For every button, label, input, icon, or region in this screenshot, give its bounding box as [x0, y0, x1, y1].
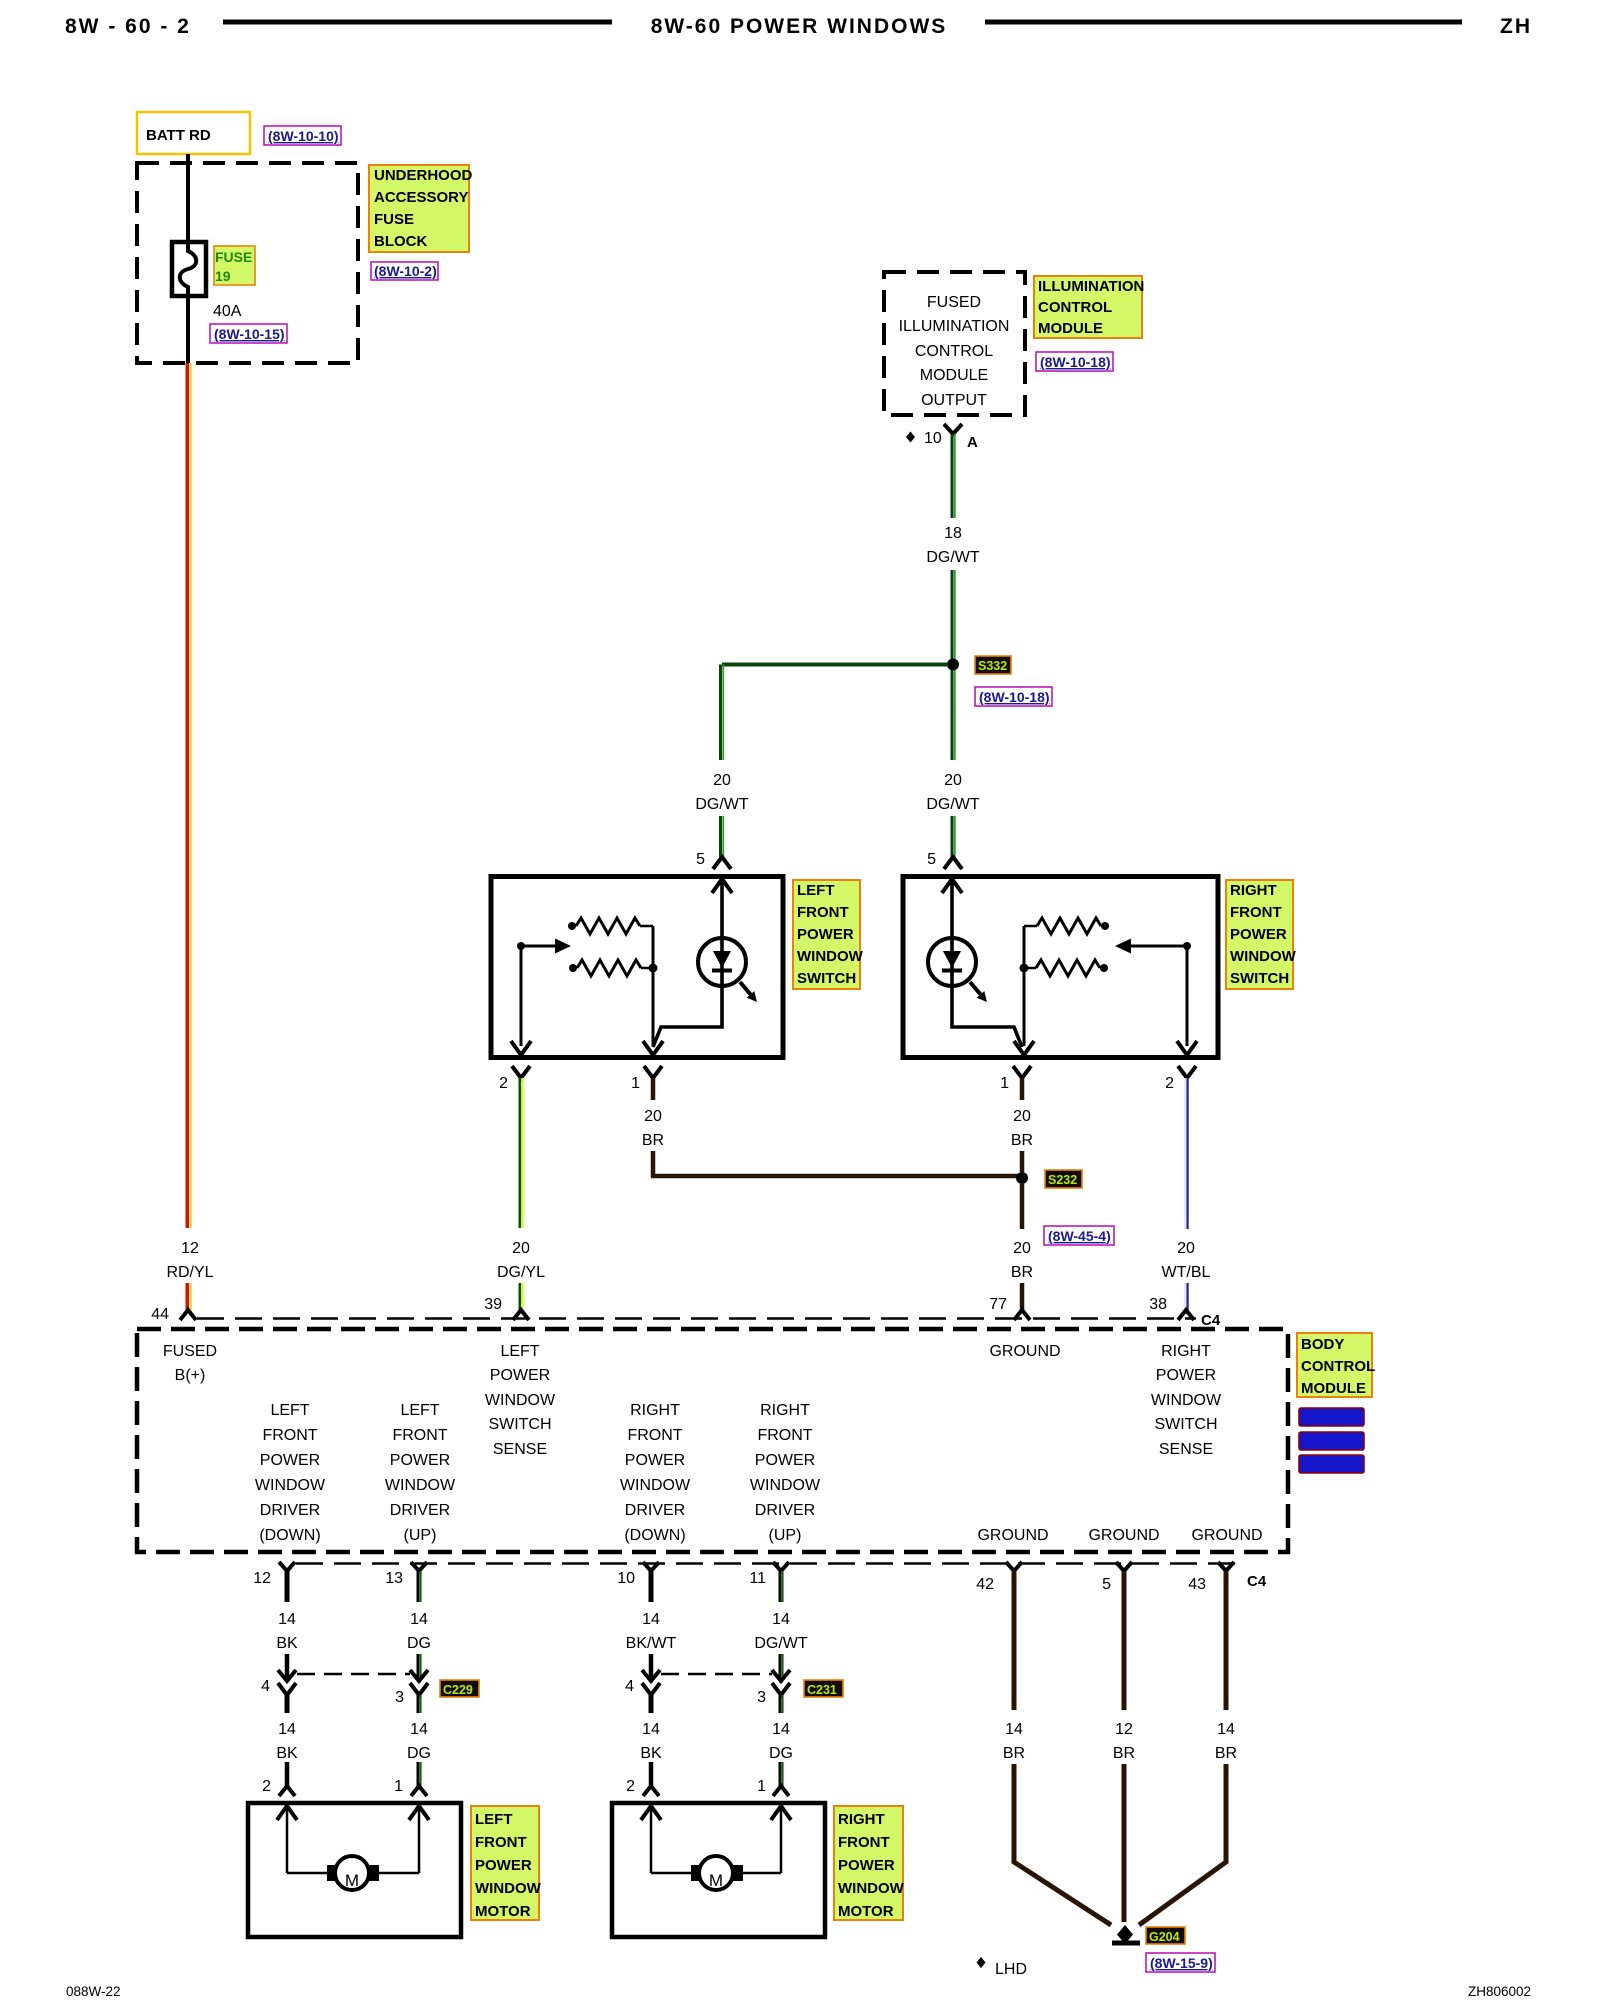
- svg-text:WINDOW: WINDOW: [838, 1880, 905, 1897]
- motor M2: [699, 1856, 733, 1890]
- svg-text:BR: BR: [642, 1132, 664, 1149]
- svg-text:12: 12: [1115, 1721, 1133, 1738]
- svg-text:POWER: POWER: [755, 1452, 815, 1469]
- link (8W-45-4): [1044, 1226, 1114, 1245]
- svg-text:BR: BR: [1011, 1132, 1033, 1149]
- left switch wiper output line: [520, 946, 523, 1046]
- connector C231 pin 3 fork: [772, 1683, 790, 1695]
- svg-text:39: 39: [484, 1296, 502, 1313]
- motor M1: [335, 1856, 369, 1890]
- svg-text:DG: DG: [769, 1745, 793, 1762]
- wire RD/YL from fuse block to BCM pin 44 (upper segment): [187, 363, 191, 1228]
- wire 14 BK stub from pin 12: [285, 1571, 290, 1602]
- ground G204 symbol: [1117, 1925, 1133, 1944]
- wire 14 BR from pin 42: [1012, 1571, 1017, 1710]
- connector C231 dashed link: [661, 1673, 772, 1676]
- svg-text:WINDOW: WINDOW: [485, 1392, 556, 1409]
- svg-text:ILLUMINATION: ILLUMINATION: [899, 318, 1010, 335]
- svg-text:14: 14: [1005, 1721, 1023, 1738]
- svg-text:DRIVER: DRIVER: [755, 1502, 815, 1519]
- wire left branch DG/WT upper: [721, 665, 724, 761]
- redacted link block 3: [1299, 1455, 1364, 1473]
- wire 14 BK/WT stub from pin 10: [649, 1571, 654, 1602]
- right switch wiper arm: [1183, 942, 1191, 950]
- left switch LED diode: [713, 951, 731, 968]
- svg-text:POWER: POWER: [390, 1452, 450, 1469]
- left motor wiring: [287, 1872, 327, 1875]
- svg-text:POWER: POWER: [625, 1452, 685, 1469]
- connector C231 pin 4 fork: [642, 1683, 660, 1695]
- wire 18 DG/WT lower: [952, 570, 955, 662]
- svg-text:BODY: BODY: [1301, 1336, 1344, 1353]
- pin A fork: [944, 424, 962, 434]
- svg-text:DRIVER: DRIVER: [260, 1502, 320, 1519]
- wire 14 DG/WT to connector C231 pin 3: [780, 1654, 783, 1678]
- svg-text:BATT RD: BATT RD: [146, 127, 211, 144]
- link (8W-10-18): [1036, 352, 1113, 371]
- svg-text:3: 3: [395, 1689, 404, 1706]
- wire 20 WT/BL upper: [1185, 1078, 1187, 1229]
- svg-text:FRONT: FRONT: [475, 1834, 527, 1851]
- ground label G204: [1146, 1927, 1185, 1944]
- svg-text:20: 20: [512, 1240, 530, 1257]
- svg-text:LEFT: LEFT: [400, 1402, 439, 1419]
- wire 20 BR right to S232: [1020, 1151, 1025, 1172]
- svg-text:1: 1: [631, 1075, 640, 1092]
- connector label C231: [804, 1680, 843, 1697]
- motor pin 2 fork: [279, 1786, 295, 1796]
- header rule left: [223, 20, 612, 25]
- motor pin 1 fork: [411, 1786, 427, 1796]
- svg-text:WINDOW: WINDOW: [750, 1477, 821, 1494]
- svg-text:S232: S232: [1048, 1173, 1077, 1187]
- svg-text:M: M: [709, 1871, 723, 1890]
- component label RIGHT FRONT POWER WINDOW MOTOR: [834, 1806, 905, 1920]
- svg-text:POWER: POWER: [838, 1857, 895, 1874]
- svg-text:BLOCK: BLOCK: [374, 233, 427, 250]
- svg-text:3: 3: [757, 1689, 766, 1706]
- svg-text:MODULE: MODULE: [1301, 1380, 1366, 1397]
- wire 20 DG/YL lower: [520, 1283, 523, 1311]
- left switch pin 1 fork: [644, 1066, 662, 1078]
- svg-text:POWER: POWER: [260, 1452, 320, 1469]
- svg-text:1: 1: [757, 1778, 766, 1795]
- ILLUMINATION MODULE: [695, 272, 1144, 869]
- svg-text:S332: S332: [978, 659, 1007, 673]
- right switch pin 5 fork: [944, 857, 962, 869]
- pin 38 fork: [1178, 1310, 1194, 1320]
- svg-text:14: 14: [410, 1721, 428, 1738]
- svg-text:DG/WT: DG/WT: [695, 796, 749, 813]
- svg-text:FUSED: FUSED: [927, 294, 981, 311]
- svg-text:14: 14: [772, 1611, 790, 1628]
- svg-text:POWER: POWER: [1156, 1367, 1216, 1384]
- svg-text:14: 14: [278, 1721, 296, 1738]
- svg-text:SENSE: SENSE: [493, 1441, 547, 1458]
- wire 20 BR to pin 77: [1020, 1283, 1025, 1311]
- svg-text:M: M: [345, 1871, 359, 1890]
- wire 14 DG stub from pin 13: [418, 1571, 421, 1602]
- svg-text:ZH: ZH: [1500, 15, 1532, 38]
- svg-text:MODULE: MODULE: [920, 367, 988, 384]
- svg-text:BR: BR: [1003, 1745, 1025, 1762]
- svg-text:FRONT: FRONT: [627, 1427, 682, 1444]
- right switch resistor R-up: [1024, 925, 1037, 928]
- right switch pin5 entry arrow: [942, 879, 962, 893]
- splice S232: [1016, 1172, 1028, 1184]
- right motor wiring: [651, 1872, 691, 1875]
- svg-text:77: 77: [989, 1296, 1007, 1313]
- wire fuse output (black segment): [186, 296, 190, 363]
- svg-text:FUSE: FUSE: [215, 249, 252, 265]
- svg-text:5: 5: [1102, 1576, 1111, 1593]
- left switch pin2 exit arrow: [511, 1041, 531, 1055]
- svg-text:ACCESSORY: ACCESSORY: [374, 189, 468, 206]
- svg-text:BR: BR: [1113, 1745, 1135, 1762]
- svg-text:CONTROL: CONTROL: [1038, 299, 1112, 316]
- svg-text:LEFT: LEFT: [270, 1402, 309, 1419]
- connector C229 dashed link: [297, 1673, 410, 1676]
- left switch resistor output line: [652, 926, 655, 1046]
- wire 20 BR left upper: [651, 1078, 656, 1100]
- svg-text:DG/WT: DG/WT: [754, 1635, 808, 1652]
- left motor pin1 entry arrow: [409, 1806, 429, 1820]
- pin 13 fork: [411, 1562, 427, 1571]
- svg-text:WINDOW: WINDOW: [1230, 948, 1297, 965]
- svg-text:1: 1: [1000, 1075, 1009, 1092]
- svg-text:SWITCH: SWITCH: [1154, 1416, 1217, 1433]
- connector C229 pin 4 fork: [278, 1683, 296, 1695]
- svg-text:BR: BR: [1215, 1745, 1237, 1762]
- svg-text:MODULE: MODULE: [1038, 320, 1103, 337]
- svg-text:20: 20: [713, 772, 731, 789]
- svg-text:(UP): (UP): [769, 1527, 802, 1544]
- svg-text:5: 5: [696, 851, 705, 868]
- wire 14 DG/WT stub from pin 11: [780, 1571, 783, 1602]
- svg-text:GROUND: GROUND: [1191, 1527, 1262, 1544]
- svg-text:5: 5: [927, 851, 936, 868]
- wire 14 BR from pin 43: [1224, 1571, 1229, 1710]
- svg-text:RIGHT: RIGHT: [630, 1402, 680, 1419]
- right switch resistor R-down: [1020, 964, 1029, 973]
- svg-text:MOTOR: MOTOR: [475, 1903, 531, 1920]
- component label LEFT FRONT POWER WINDOW SWITCH: [793, 880, 864, 989]
- svg-text:BK: BK: [640, 1745, 662, 1762]
- svg-text:POWER: POWER: [797, 926, 854, 943]
- svg-text:FRONT: FRONT: [838, 1834, 890, 1851]
- svg-text:DG/YL: DG/YL: [497, 1264, 545, 1281]
- svg-text:20: 20: [1013, 1108, 1031, 1125]
- right front power window switch box: [903, 877, 1218, 1058]
- svg-text:DG/WT: DG/WT: [926, 796, 980, 813]
- wire right branch DG/WT lower: [952, 816, 955, 857]
- wire 12 BR from pin 5: [1122, 1571, 1127, 1710]
- left switch resistor R-up: [568, 922, 576, 930]
- svg-text:FRONT: FRONT: [1230, 904, 1282, 921]
- pin 42 fork: [1006, 1562, 1022, 1571]
- svg-text:8W - 60 - 2: 8W - 60 - 2: [65, 15, 191, 38]
- svg-text:088W-22: 088W-22: [66, 1984, 121, 1999]
- svg-text:RIGHT: RIGHT: [760, 1402, 810, 1419]
- TOP LEFT: battery feed and fuse block: [137, 112, 473, 1323]
- svg-text:4: 4: [261, 1678, 270, 1695]
- pin 10 fork: [643, 1562, 659, 1571]
- svg-text:(8W-15-9): (8W-15-9): [1150, 1955, 1213, 1971]
- motor M2 left brush: [691, 1865, 701, 1881]
- left switch pin1 exit arrow: [643, 1041, 663, 1055]
- fused illumination control module output dashed box: [884, 272, 1025, 415]
- connector label C229: [440, 1680, 479, 1697]
- svg-text:10: 10: [924, 430, 942, 447]
- svg-text:(8W-10-18): (8W-10-18): [979, 689, 1050, 705]
- svg-text:ZH806002: ZH806002: [1468, 1984, 1531, 1999]
- svg-text:FRONT: FRONT: [392, 1427, 447, 1444]
- BCM: [137, 1329, 1375, 1590]
- svg-text:BK/WT: BK/WT: [626, 1635, 677, 1652]
- svg-text:(UP): (UP): [404, 1527, 437, 1544]
- right switch LED supply line: [952, 879, 1022, 1047]
- svg-text:CONTROL: CONTROL: [1301, 1358, 1375, 1375]
- left front power window motor box: [248, 1803, 461, 1937]
- right switch LED diode: [943, 951, 961, 968]
- right switch pin2 exit arrow: [1177, 1041, 1197, 1055]
- splice S332: [947, 659, 959, 671]
- svg-text:14: 14: [642, 1611, 660, 1628]
- svg-text:(DOWN): (DOWN): [624, 1527, 685, 1544]
- link (8W-10-15): [210, 324, 287, 343]
- right switch LED lamp circle: [928, 938, 976, 986]
- wire 14 DG to connector C229 pin 3: [418, 1654, 421, 1678]
- svg-text:FUSED: FUSED: [163, 1343, 217, 1360]
- footnote diamond LHD: [977, 1957, 986, 1968]
- pin 12 fork: [279, 1562, 295, 1571]
- svg-text:(DOWN): (DOWN): [259, 1527, 320, 1544]
- svg-text:(8W-10-2): (8W-10-2): [374, 263, 437, 279]
- svg-text:FRONT: FRONT: [757, 1427, 812, 1444]
- svg-text:GROUND: GROUND: [977, 1527, 1048, 1544]
- svg-text:BK: BK: [276, 1745, 298, 1762]
- left switch LED lamp circle: [698, 938, 746, 986]
- svg-text:DG/WT: DG/WT: [926, 549, 980, 566]
- connector C4 top line: [197, 1317, 1196, 1320]
- svg-text:LEFT: LEFT: [475, 1811, 513, 1828]
- svg-text:POWER: POWER: [490, 1367, 550, 1384]
- svg-text:14: 14: [410, 1611, 428, 1628]
- svg-text:8W-60 POWER WINDOWS: 8W-60 POWER WINDOWS: [651, 15, 948, 38]
- svg-text:12: 12: [253, 1570, 271, 1587]
- body control module dashed box: [137, 1329, 1288, 1552]
- svg-text:FRONT: FRONT: [262, 1427, 317, 1444]
- connector C4 bottom line: [296, 1562, 1242, 1565]
- svg-text:42: 42: [976, 1576, 994, 1593]
- svg-text:C4: C4: [1247, 1573, 1267, 1590]
- svg-text:GROUND: GROUND: [1088, 1527, 1159, 1544]
- pin 5 fork: [1116, 1562, 1132, 1571]
- label FUSE 19: [214, 246, 255, 285]
- svg-text:WT/BL: WT/BL: [1162, 1264, 1211, 1281]
- svg-text:2: 2: [262, 1778, 271, 1795]
- component label ILLUMINATION CONTROL MODULE: [1034, 276, 1144, 338]
- component label BODY CONTROL MODULE: [1297, 1333, 1375, 1397]
- node BATT RD box: [137, 112, 250, 154]
- svg-text:WINDOW: WINDOW: [255, 1477, 326, 1494]
- right switch resistor output line: [1023, 926, 1026, 1046]
- pin 11 fork: [773, 1562, 789, 1571]
- link (8W-10-18) splice: [975, 687, 1052, 706]
- svg-text:19: 19: [215, 268, 231, 284]
- left switch pin 2 fork: [512, 1066, 530, 1078]
- svg-text:DRIVER: DRIVER: [390, 1502, 450, 1519]
- svg-text:C4: C4: [1201, 1312, 1221, 1329]
- link (8W-15-9): [1146, 1953, 1215, 1972]
- BOTTOM WIRES AND MOTORS: [248, 1562, 1237, 1978]
- svg-text:FUSE: FUSE: [374, 211, 414, 228]
- left switch resistor R-down: [569, 964, 577, 972]
- svg-text:LEFT: LEFT: [500, 1343, 539, 1360]
- svg-text:DG: DG: [407, 1635, 431, 1652]
- svg-text:10: 10: [617, 1570, 635, 1587]
- motor M2 right brush: [733, 1865, 743, 1881]
- right switch LED out arrow: [970, 982, 981, 994]
- svg-text:(8W-10-10): (8W-10-10): [268, 128, 339, 144]
- wire 20 WT/BL lower: [1185, 1283, 1187, 1311]
- svg-text:2: 2: [626, 1778, 635, 1795]
- pin 77 fork: [1014, 1310, 1030, 1320]
- svg-text:RIGHT: RIGHT: [1161, 1343, 1211, 1360]
- wire 14 BK/WT to connector C231 pin 4: [649, 1654, 654, 1678]
- header rule right: [985, 20, 1462, 25]
- svg-text:ILLUMINATION: ILLUMINATION: [1038, 278, 1144, 295]
- connector C229 pin 3 fork: [410, 1683, 428, 1695]
- svg-text:BR: BR: [1011, 1264, 1033, 1281]
- svg-text:DG: DG: [407, 1745, 431, 1762]
- wire 20 BR left elbow to S232: [653, 1151, 1018, 1176]
- svg-text:C231: C231: [807, 1683, 837, 1697]
- svg-text:WINDOW: WINDOW: [475, 1880, 542, 1897]
- right switch pin 2 fork: [1178, 1066, 1196, 1078]
- component label UNDERHOOD ACCESSORY FUSE BLOCK: [369, 165, 473, 252]
- right motor pin2 entry arrow: [641, 1806, 661, 1820]
- fuse F19 symbol: [172, 242, 206, 296]
- svg-text:POWER: POWER: [1230, 926, 1287, 943]
- footnote diamond 10: [906, 432, 915, 443]
- PAGE HEADER: [65, 15, 1532, 38]
- component label RIGHT FRONT POWER WINDOW SWITCH: [1226, 880, 1297, 989]
- svg-text:14: 14: [642, 1721, 660, 1738]
- motor M1 right brush: [369, 1865, 379, 1881]
- svg-text:43: 43: [1188, 1576, 1206, 1593]
- svg-text:WINDOW: WINDOW: [385, 1477, 456, 1494]
- pin 39 fork: [513, 1310, 529, 1320]
- svg-text:MOTOR: MOTOR: [838, 1903, 894, 1920]
- underhood accessory fuse block dashed box: [137, 163, 358, 363]
- wire 18 DG/WT upper: [952, 434, 955, 518]
- svg-text:12: 12: [181, 1240, 199, 1257]
- svg-text:14: 14: [1217, 1721, 1235, 1738]
- wire 20 DG/YL upper: [520, 1078, 523, 1228]
- svg-text:C229: C229: [443, 1683, 473, 1697]
- svg-text:11: 11: [749, 1570, 766, 1587]
- link (8W-10-10): [264, 126, 341, 145]
- svg-text:SWITCH: SWITCH: [1230, 970, 1289, 987]
- motor M1 left brush: [327, 1865, 337, 1881]
- svg-text:DRIVER: DRIVER: [625, 1502, 685, 1519]
- svg-text:CONTROL: CONTROL: [915, 343, 993, 360]
- wire 14 BK to connector C229 pin 4: [285, 1654, 290, 1678]
- svg-text:4: 4: [625, 1678, 634, 1695]
- left motor pin2 entry arrow: [277, 1806, 297, 1820]
- right motor pin 2 fork: [643, 1786, 659, 1796]
- svg-text:1: 1: [394, 1778, 403, 1795]
- svg-text:WINDOW: WINDOW: [797, 948, 864, 965]
- svg-text:44: 44: [151, 1306, 169, 1323]
- left front power window switch box: [491, 877, 783, 1058]
- svg-text:WINDOW: WINDOW: [1151, 1392, 1222, 1409]
- svg-text:13: 13: [385, 1570, 403, 1587]
- right switch pin1 exit arrow: [1014, 1041, 1034, 1055]
- svg-text:SWITCH: SWITCH: [488, 1416, 551, 1433]
- redacted link block 1: [1299, 1408, 1364, 1426]
- svg-text:2: 2: [1165, 1075, 1174, 1092]
- SWITCH BOXES: [491, 877, 1297, 1058]
- svg-text:14: 14: [278, 1611, 296, 1628]
- wire 20 BR below S232: [1020, 1184, 1025, 1229]
- svg-text:SENSE: SENSE: [1159, 1441, 1213, 1458]
- component label LEFT FRONT POWER WINDOW MOTOR: [471, 1806, 542, 1920]
- wire S332 branch horizontal: [722, 663, 948, 667]
- wire from BATT RD to fuse: [186, 154, 190, 243]
- right switch pin 1 fork: [1013, 1066, 1031, 1078]
- svg-text:BK: BK: [276, 1635, 298, 1652]
- svg-text:LEFT: LEFT: [797, 882, 835, 899]
- svg-text:(8W-10-18): (8W-10-18): [1040, 354, 1111, 370]
- svg-text:RIGHT: RIGHT: [838, 1811, 885, 1828]
- svg-text:2: 2: [499, 1075, 508, 1092]
- right switch wiper output line: [1186, 946, 1189, 1046]
- svg-text:20: 20: [944, 772, 962, 789]
- right motor pin1 entry arrow: [771, 1806, 791, 1820]
- svg-text:WINDOW: WINDOW: [620, 1477, 691, 1494]
- svg-text:B(+): B(+): [175, 1367, 206, 1384]
- FOOTER: [66, 1984, 1531, 1999]
- svg-text:LHD: LHD: [995, 1961, 1027, 1978]
- left switch LED out arrow: [740, 982, 751, 994]
- svg-text:18: 18: [944, 525, 962, 542]
- left switch pin5 entry arrow: [712, 879, 732, 893]
- right motor pin 1 fork: [773, 1786, 789, 1796]
- svg-text:(8W-10-15): (8W-10-15): [214, 326, 285, 342]
- wire 20 BR right upper: [1020, 1078, 1025, 1100]
- svg-text:POWER: POWER: [475, 1857, 532, 1874]
- svg-text:GROUND: GROUND: [989, 1343, 1060, 1360]
- wire left branch DG/WT lower: [721, 816, 724, 857]
- pin 44 fork: [180, 1310, 196, 1320]
- svg-text:OUTPUT: OUTPUT: [921, 392, 987, 409]
- redacted link block 2: [1299, 1432, 1364, 1450]
- svg-text:20: 20: [1177, 1240, 1195, 1257]
- svg-text:(8W-45-4): (8W-45-4): [1048, 1228, 1111, 1244]
- svg-text:20: 20: [1013, 1240, 1031, 1257]
- svg-text:FRONT: FRONT: [797, 904, 849, 921]
- svg-text:UNDERHOOD: UNDERHOOD: [374, 167, 473, 184]
- svg-text:38: 38: [1149, 1296, 1167, 1313]
- svg-text:G204: G204: [1149, 1930, 1180, 1944]
- wire right branch DG/WT mid: [952, 670, 955, 760]
- link (8W-10-2): [371, 262, 438, 280]
- wire RD/YL lower segment: [187, 1283, 191, 1311]
- MIDDLE WIRES: [197, 1066, 1221, 1329]
- svg-text:20: 20: [644, 1108, 662, 1125]
